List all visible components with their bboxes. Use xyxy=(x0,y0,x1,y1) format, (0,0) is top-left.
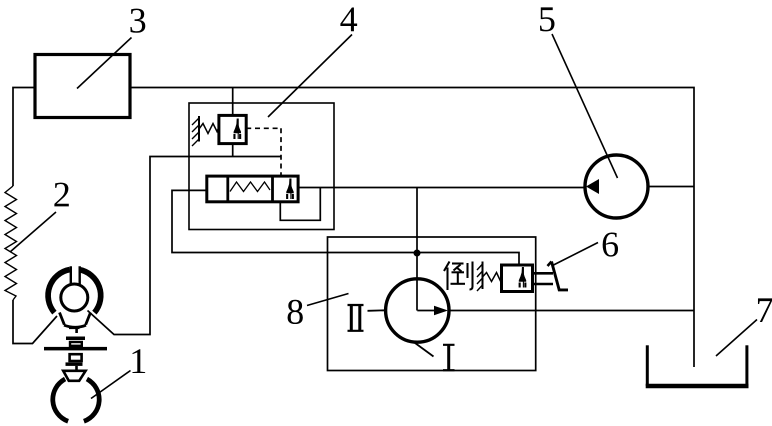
leader line 6 xyxy=(553,243,599,266)
pilot dashed line from relief valve to reducing valve xyxy=(246,128,281,176)
motor 5 circle xyxy=(585,155,648,218)
wire: reducing valve left port going left then down then right to junction, then to valve6 top xyxy=(172,190,519,265)
label 1 xyxy=(132,349,145,373)
valve 6 lever linkage bars xyxy=(533,273,554,284)
spindle stack: open rect C xyxy=(70,342,82,346)
wire: pump outlet return line to tank pipe xyxy=(449,310,694,312)
package circle 1 (bottom) xyxy=(53,379,99,421)
spindle stack: bar F xyxy=(66,362,83,366)
resistor-spring 2 (zigzag) xyxy=(5,186,17,300)
label 7 xyxy=(758,298,772,322)
label 3 xyxy=(130,9,145,33)
relief valve arrow (rocket) xyxy=(233,119,241,140)
cone guide (trapezoid) xyxy=(63,371,85,381)
leader line 1 xyxy=(91,371,131,399)
valve 6 lever xyxy=(552,262,569,290)
valve 6 body xyxy=(502,265,533,292)
spindle stack: bar A xyxy=(69,326,80,329)
wire: main top line from box3 to right side down to tank xyxy=(130,88,694,368)
enclosure box of valve assembly 4 xyxy=(189,103,334,230)
pump circle (I/II unit) xyxy=(386,279,449,342)
leader line 5 xyxy=(552,34,618,178)
reducing valve cell dividers xyxy=(228,176,273,202)
wire: box3 left lead going left then down xyxy=(13,88,35,187)
wire: U loop under reducing valve xyxy=(280,188,320,221)
spindle stack: stub 2 xyxy=(75,366,78,370)
wire: drop from main line to relief valve top xyxy=(232,88,234,116)
character dao (reverse) xyxy=(444,262,473,291)
label 6 xyxy=(603,232,618,256)
wire: relief valve bottom stub xyxy=(232,144,234,157)
tension drum assembly (top): outer ring arcs xyxy=(48,266,101,327)
wire: drum lower-right to vertical riser to valve drain line xyxy=(88,157,282,335)
valve 6 arrow (rocket) xyxy=(519,267,527,288)
wire: reducing valve right port to motor 5 xyxy=(298,187,585,189)
machine frame box 8 xyxy=(328,237,536,371)
leader line I xyxy=(413,342,434,357)
dash from II to pump xyxy=(368,309,386,312)
spindle stack: stub 1 xyxy=(75,329,78,333)
valve 6 spring xyxy=(483,273,502,282)
motor 5 triangle xyxy=(586,179,599,194)
reducing valve spring (middle cell zigzag) xyxy=(230,182,270,192)
label 5 xyxy=(540,7,555,31)
label 4 xyxy=(340,8,357,32)
block 3 xyxy=(35,55,130,118)
label II (roman numeral) xyxy=(348,305,364,331)
junction node dot xyxy=(414,250,421,257)
label I (roman numeral) xyxy=(443,345,455,370)
leader line 3 xyxy=(77,38,132,89)
valve 6 anchor wall with hatches xyxy=(477,262,483,292)
label 2 xyxy=(54,183,68,207)
pump arrow xyxy=(417,310,436,312)
relief valve body xyxy=(219,115,246,143)
leader line 4 xyxy=(268,35,352,118)
leader line 2 xyxy=(10,212,56,252)
relief valve (top of 4): anchor wall with hatches xyxy=(192,116,199,146)
spindle stack: bar B xyxy=(66,337,85,341)
leader line 7 xyxy=(716,320,757,357)
wire: spring bottom to drum lower-left xyxy=(13,300,57,344)
drum inner circle xyxy=(61,284,88,311)
wire: vertical from motor line down to pump center xyxy=(416,188,418,311)
leader line 8 xyxy=(307,294,349,306)
tank 7 xyxy=(646,345,649,386)
reducing valve arrow (rocket, right cell) xyxy=(286,179,294,200)
spindle stack: open rect E xyxy=(70,354,82,361)
spindle stack: long press bar D xyxy=(44,347,107,351)
label 8 xyxy=(288,300,303,324)
reducing valve body (lower valve of 4) xyxy=(207,176,298,202)
drum skirt xyxy=(60,313,91,328)
wire: motor 5 right side to right bus xyxy=(648,186,694,188)
drum top slot lines xyxy=(71,266,80,284)
relief valve spring xyxy=(199,124,219,134)
